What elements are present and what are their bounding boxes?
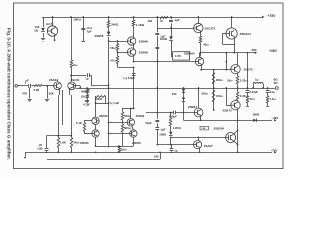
wire x237 lower vertical: [237, 120, 239, 152]
svg-text:5.1K: 5.1K: [76, 121, 82, 125]
resistor 150 ohm: [212, 90, 215, 102]
transistor Q6 2SB464: [195, 57, 203, 65]
wire 56K link: [95, 96, 109, 117]
label 6.8uF: [124, 76, 136, 80]
capacitor input: [29, 84, 31, 88]
svg-text:24ω: 24ω: [270, 90, 276, 94]
svg-text:(1K): (1K): [81, 95, 86, 99]
svg-text:2SB554: 2SB554: [214, 126, 225, 130]
wire cluster tee y108.5: [122, 108, 135, 110]
ground below D1: [41, 39, 45, 42]
resistor 1K fb: [86, 95, 89, 99]
node cluster bottom: [95, 145, 120, 147]
svg-text:2SD424: 2SD424: [240, 32, 251, 36]
resistor 47 ohm: [116, 56, 119, 64]
wire +38 line: [200, 52, 255, 54]
transistor Q2 2SA61 left: [54, 80, 62, 93]
label 2SA67: [204, 144, 213, 148]
wire fb bottom stub: [87, 102, 89, 104]
arrowhead +75V rail: [262, 16, 264, 19]
transistor Q12 2SD66: [92, 125, 99, 138]
label 1uH: [255, 78, 259, 82]
wire base line y28: [157, 28, 193, 30]
capacitor 1uF bottom: [170, 149, 174, 151]
svg-text:4.7μF: 4.7μF: [83, 103, 90, 107]
resistor 1.2K: [169, 118, 172, 126]
ground bar below x83: [82, 41, 86, 43]
trimmer box 1.5K: [173, 52, 190, 60]
label 100 ohm rail: [148, 19, 153, 23]
label 0.22 lower: [240, 94, 248, 98]
label 56K input: [49, 91, 54, 95]
wire input: [18, 85, 28, 87]
resistor 0.22 lower: [236, 92, 239, 100]
wire q11 base: [84, 120, 92, 122]
figure caption (vertical): [7, 28, 12, 160]
wire zobel2: [267, 88, 269, 106]
wire ground rail y152.3: [25, 152, 272, 154]
svg-text:56K: 56K: [81, 89, 86, 93]
label 0.22uF zobel: [250, 90, 259, 94]
label 2SB46 upper: [139, 39, 149, 43]
arrowhead Q1 emitter: [53, 40, 56, 42]
svg-text:1.5K: 1.5K: [175, 54, 181, 58]
resistor 300 ohm: [212, 73, 215, 85]
label 1N60 mid: [159, 132, 166, 136]
label 330: [172, 92, 177, 96]
label 1.1K: [136, 23, 145, 27]
wire base Q10: [225, 87, 230, 105]
diode D1: [41, 28, 45, 32]
svg-text:+75V: +75V: [268, 14, 277, 18]
svg-text:(2): (2): [35, 29, 39, 33]
wire base 2SD424: [222, 34, 234, 45]
svg-text:2SB58: 2SB58: [95, 34, 104, 38]
node y69.8: [200, 69, 227, 71]
transistor Q8 2SD424 power: [226, 17, 237, 53]
ground arrow input: [24, 152, 27, 159]
label 2SB554: [214, 126, 225, 130]
svg-text:56KΩ: 56KΩ: [95, 97, 103, 101]
svg-text:2SD72: 2SD72: [244, 68, 254, 72]
wire QC base line: [157, 144, 193, 146]
wire between pair: [133, 44, 135, 49]
wire q12 base: [84, 133, 92, 135]
label 240: [111, 22, 119, 26]
transistor Q17 2SB554 power: [226, 133, 236, 143]
svg-text:0.22ω: 0.22ω: [240, 79, 248, 83]
transistor Q10 2SB72 lower: [231, 100, 240, 120]
wire -38V rail: [184, 120, 273, 122]
svg-text:2SA61: 2SA61: [71, 78, 80, 82]
label plus 1uF: [110, 101, 120, 105]
label zobel2 cap: [270, 90, 276, 94]
wire cluster bottom: [96, 146, 134, 148]
label 47 ohm: [110, 58, 116, 62]
svg-text:47μF: 47μF: [145, 121, 152, 125]
wire Q7 emitter to Q6: [200, 43, 202, 57]
label 1.2K: [173, 126, 182, 130]
svg-text:1μF: 1μF: [160, 35, 165, 39]
svg-text:240Ω: 240Ω: [111, 22, 119, 26]
label 2SD66 q13: [136, 114, 145, 118]
svg-text:1.5ω: 1.5ω: [270, 97, 277, 101]
svg-text:μF: μF: [26, 78, 30, 82]
resistor 2K tail: [70, 138, 73, 148]
capacitor zobel2: [266, 91, 270, 93]
label input cap: [25, 78, 30, 85]
input terminal: [15, 85, 18, 88]
label 1uF x171: [175, 18, 180, 22]
label 56 ohm: [110, 46, 116, 50]
svg-text:−38V: −38V: [272, 116, 279, 120]
label 1.8K: [60, 140, 66, 144]
svg-text:0.22μF: 0.22μF: [250, 90, 259, 94]
svg-text:(18): (18): [38, 147, 43, 151]
wire branch x133: [133, 17, 135, 37]
wire pair emitter down: [133, 55, 135, 62]
label 0.22 upper: [240, 79, 248, 83]
label 2SB64: [188, 105, 197, 109]
svg-text:(+) 6.8μF: (+) 6.8μF: [124, 76, 136, 80]
label 56K horiz: [95, 97, 103, 101]
wire x170 column: [170, 113, 172, 145]
svg-text:300ω: 300ω: [216, 78, 224, 82]
svg-text:2SB46: 2SB46: [139, 50, 149, 54]
svg-text:330: 330: [172, 92, 177, 96]
svg-text:A2.5: A2.5: [46, 22, 53, 26]
resistor 56K fb: [86, 89, 89, 93]
resistor 56K horizontal: [96, 96, 106, 98]
resistor 560 cluster: [121, 112, 124, 120]
svg-text:1μF: 1μF: [175, 18, 180, 22]
wire base feed y41: [109, 41, 128, 43]
wire lower rail y159.3: [47, 152, 161, 159]
svg-text:Fig. 5-10. A 200-watt continuo: Fig. 5-10. A 200-watt continuous operati…: [7, 28, 12, 160]
label 2SC275: [205, 26, 216, 30]
svg-text:100: 100: [148, 19, 153, 23]
svg-text:1μ: 1μ: [85, 76, 89, 80]
label 5.1K: [76, 121, 82, 125]
node x213: [213, 87, 215, 89]
label 600: [124, 126, 132, 130]
svg-text:1μ: 1μ: [255, 78, 259, 82]
capacitor 0.22uF zobel: [246, 91, 250, 93]
capacitor 0.47uF: [81, 29, 85, 30]
svg-text:1.2KΩ: 1.2KΩ: [173, 126, 182, 130]
node output junctions: [86, 87, 268, 89]
label 100 2W: [35, 25, 40, 32]
svg-text:1μ: 1μ: [160, 19, 164, 23]
svg-text:SP: SP: [274, 81, 278, 85]
label 2.2K: [34, 88, 40, 92]
diode 2SB58: [107, 32, 111, 36]
label 150 ohm: [216, 94, 224, 98]
transistor Q4 2SB46 upper: [127, 37, 135, 45]
wire 22uF branch x46: [46, 136, 48, 153]
svg-text:1.5K: 1.5K: [201, 128, 206, 130]
wire input2: [31, 85, 34, 87]
capacitor 6.8uF: [132, 74, 136, 76]
wire shunt x47: [46, 85, 48, 99]
label 2SD72 upper: [244, 68, 254, 72]
wire tails to ground rail: [59, 148, 72, 153]
svg-text:47K: 47K: [22, 91, 27, 95]
border frame of schematic figure: [14, 3, 284, 169]
wire collector line y137: [171, 136, 226, 138]
label 47uF: [145, 121, 152, 125]
label 1uF mid x157: [160, 35, 165, 39]
node x157: [156, 61, 158, 146]
svg-text:2SB72: 2SB72: [223, 108, 233, 112]
node -38 junctions: [200, 109, 239, 121]
svg-text:1μ: 1μ: [174, 149, 177, 153]
wire x213 column: [213, 70, 215, 110]
svg-text:56K: 56K: [49, 91, 54, 95]
svg-text:+38V: +38V: [269, 49, 278, 53]
diode bias lower: [182, 98, 185, 102]
svg-text:2.2K: 2.2K: [34, 88, 40, 92]
label 22uF: [38, 143, 43, 150]
label 4.7uF fb: [83, 103, 90, 107]
capacitor 4.7uF fb: [85, 101, 89, 102]
label 2SD66 q11: [99, 114, 108, 118]
svg-text:2SD66: 2SD66: [80, 141, 89, 145]
label 1uF low x157: [160, 127, 165, 131]
label 8 ohm SP: [274, 78, 279, 85]
svg-text:−75V: −75V: [271, 148, 278, 152]
arrowhead -38V: [274, 119, 276, 122]
label 2SD66 q12: [80, 141, 89, 145]
label 47K: [22, 91, 27, 95]
wire input3: [42, 85, 54, 87]
label 100uF: [169, 115, 178, 119]
wire x226 link: [225, 53, 227, 70]
box 1.5 ohm: [200, 126, 209, 130]
wire +75V top supply rail: [42, 17, 262, 19]
wire q13 base: [109, 122, 128, 124]
label +75V: [268, 14, 277, 18]
label 300 ohm: [216, 78, 233, 83]
wire tail mid x62: [62, 90, 64, 125]
label 1uF bottom: [174, 149, 177, 153]
label 560: [124, 114, 132, 118]
node x183: [183, 112, 185, 114]
capacitor 1uF x171: [169, 21, 173, 22]
label 240 bottom: [154, 154, 159, 158]
wire q14 base: [109, 133, 130, 135]
label 2K tail: [73, 140, 80, 144]
transistor Q1 A2.5 current source: [47, 17, 57, 40]
wire x133 long vertical: [133, 67, 135, 108]
label 2SD66 q14: [132, 141, 141, 145]
wire x157 long vertical: [157, 17, 159, 145]
svg-text:2SA61: 2SA61: [49, 78, 58, 82]
resistor 40 ohm emitter: [199, 36, 202, 43]
resistor 1.8K tail: [57, 138, 60, 148]
wire tail x58: [59, 92, 60, 138]
transistor Q3 2SA61 right: [68, 81, 76, 92]
svg-text:2SD66: 2SD66: [136, 114, 145, 118]
ground x30: [28, 100, 32, 102]
label 2SB72 lower: [223, 108, 233, 112]
label 38C: [252, 48, 258, 52]
svg-text:1: 1: [25, 82, 27, 85]
node x170: [170, 136, 172, 145]
resistor 5.1K cluster: [83, 121, 86, 134]
wire fb chain x87: [87, 88, 89, 100]
wire emitters node: [237, 84, 239, 92]
resistor 600 cluster: [121, 124, 124, 132]
label 1uF top x157: [160, 19, 164, 23]
capacitor 100uF: [174, 111, 176, 115]
diode bias upper: [182, 89, 185, 92]
resistor 10K collector load: [70, 60, 73, 68]
wire chain bottom tie: [118, 66, 135, 68]
svg-text:1Kω: 1Kω: [121, 148, 128, 152]
label 1uF comp: [85, 76, 89, 80]
label 0.47uF: [87, 26, 93, 33]
label zobel2 res: [270, 97, 277, 101]
svg-text:56ω: 56ω: [110, 46, 116, 50]
diode 1N60 rail: [253, 119, 256, 123]
label -75V: [271, 148, 278, 152]
output terminal: [275, 87, 278, 90]
svg-text:240: 240: [154, 154, 159, 158]
resistor 1.1K: [132, 20, 135, 26]
resistor 56 ohm: [116, 44, 119, 51]
label 40 ohm: [203, 43, 209, 47]
capacitor x157 upper: [155, 34, 159, 35]
label 1K below: [121, 148, 128, 152]
wire base line y61.8: [134, 61, 196, 63]
capacitor x157 y47: [155, 48, 159, 49]
transistor Q16 2SA67: [194, 137, 202, 152]
wire branch x43: [43, 17, 45, 38]
label 2SB464: [184, 52, 195, 56]
wire emitter resistor chain x117: [118, 41, 128, 67]
label 10K collector: [73, 18, 82, 22]
wire shunt x30: [29, 88, 31, 99]
wire Q6 collector up: [199, 53, 201, 58]
svg-text:47ω: 47ω: [110, 58, 116, 62]
label 1K fb: [81, 95, 86, 99]
capacitor 47uF x157: [155, 121, 159, 122]
resistor 240 ohm: [107, 21, 110, 28]
svg-text:2Kω: 2Kω: [73, 140, 80, 144]
transistor Q7 2SC275: [194, 17, 203, 36]
wire chain x122: [122, 109, 124, 147]
wire y135 link: [47, 135, 73, 137]
node top rail junctions: [52, 16, 233, 18]
diode 1N60 mid: [169, 132, 173, 136]
resistor 100 ohm on rail: [160, 17, 168, 19]
capacitor 1uF comp: [88, 73, 90, 77]
svg-text:100ω: 100ω: [201, 91, 208, 95]
svg-text:10Kω: 10Kω: [73, 18, 82, 22]
label 47 zobel: [250, 97, 256, 101]
svg-text:600ω: 600ω: [124, 126, 132, 130]
label 2SB58: [95, 34, 104, 38]
wire branch x171: [171, 17, 173, 52]
transistor Q5 2SB46 lower: [127, 48, 135, 56]
resistor 2.2K input: [34, 85, 42, 87]
label 2SA61 right: [71, 78, 80, 82]
wire branch x83: [83, 17, 85, 41]
wire Q3 collector load x71: [71, 17, 73, 81]
capacitor 1uF x157 low: [155, 128, 159, 130]
diode 1N4 x171: [169, 36, 173, 40]
wire Q17 leads: [233, 131, 238, 145]
wire x247 commutator drop: [247, 53, 249, 88]
resistor 1K below cluster: [118, 146, 121, 152]
label 1.5K: [175, 54, 181, 58]
label 2SB46 lower: [139, 50, 149, 54]
svg-text:(+) 1μF: (+) 1μF: [110, 101, 120, 105]
svg-text:2SB46: 2SB46: [139, 39, 149, 43]
node x171 y28: [170, 27, 172, 29]
svg-text:7μF: 7μF: [87, 29, 92, 33]
label 1.5 box: [201, 128, 206, 130]
node y112: [170, 112, 172, 114]
svg-text:1N60: 1N60: [159, 132, 166, 136]
label 1N60 rail: [253, 113, 260, 117]
label 56K fb: [81, 89, 86, 93]
wire q12 down: [95, 137, 97, 146]
wire x171 bottom cap branch: [171, 145, 173, 153]
wire y112 line: [146, 112, 194, 114]
svg-text:2SD66: 2SD66: [99, 114, 108, 118]
transistor Q9 2SD72 upper: [231, 53, 240, 76]
wire zobel1: [247, 88, 249, 106]
arrowhead +38V: [255, 51, 257, 54]
wire Q3 base to fb line: [76, 86, 81, 89]
svg-text:38C: 38C: [252, 48, 258, 52]
wire branch x108: [108, 17, 110, 148]
svg-text:40ω: 40ω: [203, 43, 209, 47]
wire comp cap link: [70, 74, 108, 85]
svg-text:1μF: 1μF: [160, 127, 165, 131]
wire Q6 emitter down: [201, 65, 231, 70]
svg-text:2SC275: 2SC275: [205, 26, 216, 30]
svg-text:100μF: 100μF: [169, 115, 178, 119]
label A2.5: [46, 22, 53, 26]
svg-text:2SA67: 2SA67: [204, 144, 213, 148]
wire q14 down: [133, 137, 135, 146]
label 2SA61 left: [49, 78, 58, 82]
svg-text:Kω: Kω: [73, 63, 78, 67]
svg-text:56ω: 56ω: [227, 79, 233, 83]
resistor 47 zobel: [246, 96, 249, 103]
ground x47: [45, 100, 49, 102]
wire tail x71: [70, 92, 72, 138]
arrowhead -75V: [274, 151, 276, 154]
label on collector resistor: [73, 63, 78, 67]
node bottom rail: [46, 151, 239, 153]
resistor zobel2: [266, 96, 269, 103]
node chain x117: [117, 40, 119, 53]
end bar zobel2: [266, 106, 269, 108]
svg-text:1.1KΩ: 1.1KΩ: [136, 23, 145, 27]
inductor 1uH: [252, 83, 264, 89]
wire x183 vertical: [183, 88, 185, 120]
wire output line y88: [76, 88, 275, 90]
resistor 0.22 upper: [236, 76, 239, 84]
svg-text:2SB64: 2SB64: [188, 105, 197, 109]
svg-text:1N60: 1N60: [253, 113, 260, 117]
label +38V: [269, 49, 278, 53]
transistor Q13 2SD66: [127, 108, 134, 126]
